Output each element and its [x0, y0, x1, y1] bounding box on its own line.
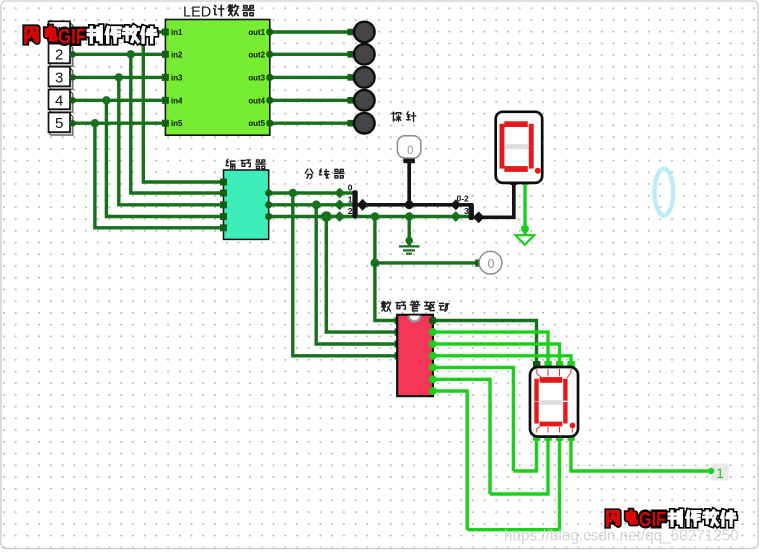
junction on encoder out0 [289, 189, 297, 197]
wire button5 to counter in5 [73, 121, 163, 124]
junction bus at probe1 [405, 200, 414, 209]
button 3 [49, 67, 76, 90]
wire display2 bottom pin2 loop [490, 440, 548, 494]
wire button3 to counter in3 [73, 76, 163, 79]
label LED计数器 [183, 4, 254, 20]
wire ground stub [408, 217, 411, 248]
svg-text:4: 4 [55, 92, 63, 109]
svg-text:in5: in5 [171, 119, 183, 128]
probe P2 circle [475, 251, 502, 274]
LED5 [347, 113, 374, 134]
svg-text:0: 0 [348, 183, 353, 193]
svg-text:2: 2 [55, 46, 63, 63]
wire display2 bottom pin3 loop [467, 440, 559, 530]
svg-text:GIF: GIF [639, 509, 666, 531]
label 分线器 [305, 169, 344, 179]
junction ground net probe2 branch [371, 259, 380, 268]
wire encoder out0 to splitter bit0 [269, 191, 353, 194]
junction on wire3 [115, 73, 123, 81]
junction on display1 ground wire [521, 225, 529, 233]
svg-text:https://blog.csdn.net/qq_50271: https://blog.csdn.net/qq_50271250 [504, 528, 739, 545]
display1 seven-segment [496, 112, 543, 185]
wire counter out5 to LED5 [270, 121, 351, 124]
svg-text:out2: out2 [248, 50, 265, 59]
wire button4 to counter in4 [73, 99, 163, 102]
wire button1 to counter in1 [73, 30, 163, 33]
wire driver out7 down [432, 391, 467, 530]
wire driver out1 to display2 pin1 [432, 321, 536, 362]
wire button3 branch to encoder in3 [119, 77, 220, 204]
wire driver out6 down [432, 379, 490, 494]
watermark top-left 闪电GIF制作软件 [26, 26, 156, 49]
svg-text:2: 2 [348, 206, 353, 216]
wire driver out5 down [432, 367, 513, 471]
wire counter out2 to LED2 [270, 53, 351, 56]
svg-text:LED: LED [183, 4, 211, 20]
cyan ellipse mark [655, 169, 674, 216]
button 2 [49, 44, 76, 67]
wire button4 branch to encoder in4 [106, 100, 220, 216]
arrow ground G2 [515, 235, 534, 245]
wire encoder out1 to splitter bit1 [269, 203, 353, 206]
LED4 [347, 90, 374, 111]
wire encoder out2 branch to driver pin2 [326, 217, 396, 333]
wire ground net to probe2 [375, 261, 476, 264]
button 4 [49, 90, 76, 113]
wire encoder out1 branch to driver pin3 [316, 205, 396, 344]
junction ground net at bit3 wire [371, 212, 379, 220]
wire button1 branch to encoder in1 [143, 32, 220, 182]
junction on wire1 [139, 28, 147, 36]
button 1 [49, 21, 76, 44]
junction on wire2 [127, 50, 135, 58]
junction on wire4 [102, 96, 110, 104]
encoder U2 [220, 170, 272, 239]
wire driver out4 to display2 pin4 [432, 356, 571, 361]
svg-text:1: 1 [716, 466, 724, 481]
wire button5 branch to encoder in5 [95, 123, 220, 228]
wire counter out4 to LED4 [270, 99, 351, 102]
junction on wire5 [91, 119, 99, 127]
watermark bottom-right 闪电GIF制作软件 [608, 509, 735, 531]
svg-text:3: 3 [464, 206, 469, 216]
wire counter out1 to LED1 [270, 30, 351, 33]
output pin 1 [708, 463, 729, 480]
svg-text:in3: in3 [171, 73, 183, 82]
display2 seven-segment [530, 361, 578, 441]
wire encoder out2 to splitter bit2 [269, 215, 353, 218]
splitter S2 [450, 194, 484, 224]
splitter S1 [334, 183, 368, 222]
label 数码管驱动 [382, 301, 449, 311]
svg-text:out5: out5 [248, 119, 265, 128]
junction on encoder out2 [321, 211, 332, 222]
svg-text:1: 1 [348, 194, 353, 204]
LED1 [347, 22, 374, 43]
wire bus splitter1 to splitter2 [358, 205, 472, 212]
junction above ground symbol [405, 237, 413, 245]
button 5 [49, 113, 76, 136]
wire ground net bit3 [358, 215, 469, 218]
LED counter U1 [162, 20, 274, 136]
label 探针 [392, 112, 416, 122]
svg-text:0-2: 0-2 [457, 194, 470, 204]
wire display1 green pin to arrow ground [523, 184, 526, 236]
svg-text:GIF: GIF [58, 26, 86, 49]
svg-text:out4: out4 [248, 96, 265, 105]
svg-text:5: 5 [55, 115, 63, 132]
wire encoder out0 branch to driver pin4 [293, 193, 396, 356]
svg-text:0: 0 [407, 145, 413, 157]
wire counter out3 to LED3 [270, 76, 351, 79]
svg-text:out3: out3 [248, 73, 265, 82]
label 编码器 [226, 159, 265, 169]
LED3 [347, 67, 374, 88]
svg-text:0: 0 [488, 257, 495, 271]
wire button2 to counter in2 [73, 53, 163, 56]
svg-text:out1: out1 [248, 28, 265, 37]
svg-text:in1: in1 [171, 28, 183, 37]
LED2 [347, 44, 374, 65]
wire display2 bottom pin1 loop [513, 440, 536, 471]
wire probe1 to bus [407, 160, 411, 205]
svg-text:3: 3 [55, 69, 63, 86]
ground G1 [399, 246, 420, 253]
wire driver out2 to display2 pin2 [432, 332, 548, 361]
svg-text:in4: in4 [171, 96, 183, 105]
junction on encoder out1 [312, 200, 321, 209]
wire bus splitter2 to display1 [474, 184, 514, 217]
svg-text:in2: in2 [171, 50, 183, 59]
wire driver out3 to display2 pin3 [432, 344, 559, 361]
junction ground stub [405, 212, 413, 220]
wire display2 bottom pin4 to output [571, 440, 711, 471]
wire ground net to driver pin1 [375, 217, 396, 321]
driver U3 [395, 315, 437, 396]
wire button2 branch to encoder in2 [131, 54, 220, 193]
probe P1 [397, 136, 421, 163]
